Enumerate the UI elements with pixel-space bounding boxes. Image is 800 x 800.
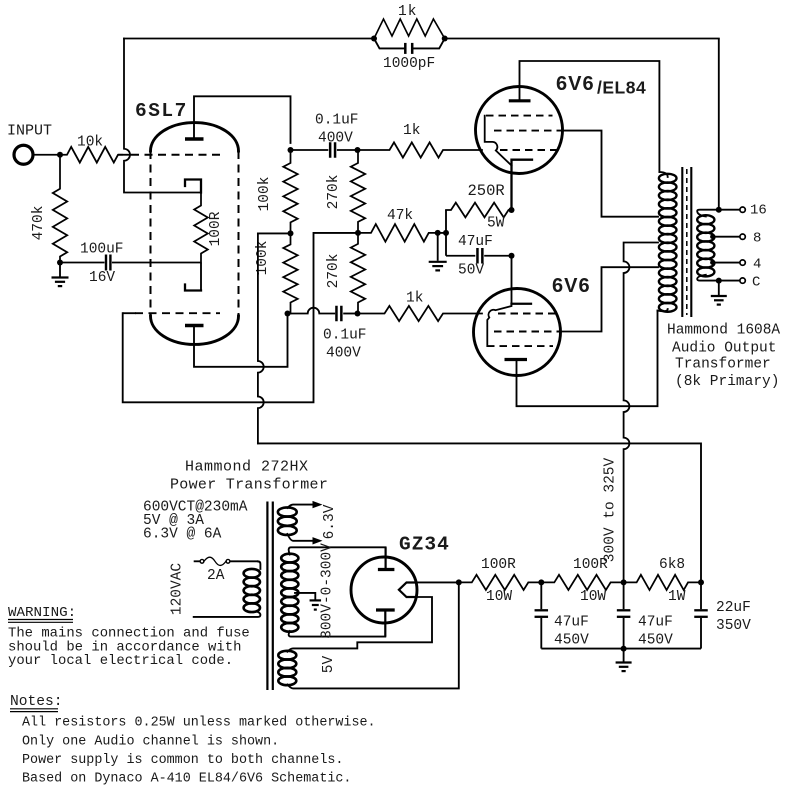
node 470k bottom [57, 260, 63, 266]
plate 6V6-1 anode bar [509, 99, 531, 102]
node filter2 [621, 579, 627, 585]
cathode 6V6-2 [512, 303, 532, 305]
wire 6V6-1 screen out [563, 131, 659, 217]
wire 100uF right to cathode resistor [112, 262, 201, 264]
node 4 tap [710, 260, 715, 265]
wire OPT primary bottom bend [658, 309, 668, 311]
ground HV center tap [310, 599, 322, 601]
svg-text:C: C [752, 275, 760, 291]
node 8 tap [710, 234, 715, 239]
resistor R9 1k lower [358, 306, 483, 321]
transformer T2 HV winding [281, 554, 298, 563]
svg-text:6k8: 6k8 [659, 557, 685, 573]
svg-text:1k: 1k [403, 123, 420, 139]
wire feedback drop with bulge over grid row [124, 39, 201, 193]
svg-text:47uF: 47uF [554, 615, 589, 631]
grid 6SL7-b dashed [135, 312, 220, 314]
svg-text:470k: 470k [31, 206, 47, 241]
svg-text:300V-0-300V: 300V-0-300V [320, 543, 336, 639]
svg-text:50V: 50V [458, 263, 484, 279]
capacitor C4 47uF 50V [476, 248, 479, 264]
resistor R13 100R second [541, 575, 623, 590]
tube 6SL7 envelope top dome [151, 123, 239, 151]
resistor R1 10k [60, 147, 122, 163]
node junction A (B+ feed) [288, 230, 294, 236]
svg-text:6V6: 6V6 [556, 73, 595, 95]
wire top feedback rail [124, 38, 719, 40]
wire 6SL7 plate2 to junction B [194, 314, 288, 367]
svg-text:1k: 1k [406, 291, 423, 307]
wire cap2 row with bulge over grid2 feed [288, 308, 335, 314]
svg-text:0.1uF: 0.1uF [323, 328, 367, 344]
ground 47k junction [437, 233, 439, 261]
wire 47uF row left [446, 255, 475, 257]
cathode 6SL7-a [185, 180, 201, 193]
plate 6SL7-b anode bar [185, 324, 204, 327]
svg-text:16V: 16V [89, 270, 115, 286]
fuse F1 2A [200, 559, 204, 563]
node filter3 [698, 579, 704, 585]
plate 6SL7-a anode bar [185, 137, 204, 140]
svg-text:5W: 5W [487, 216, 505, 232]
wire OPT primary top bend [659, 172, 667, 177]
node ground bus [621, 646, 627, 652]
node filter1 [538, 579, 544, 585]
wire 6V6-2 cathode lead [511, 256, 513, 304]
grid 6V6-1 g2 screen dashed [494, 130, 563, 132]
svg-text:6V6: 6V6 [552, 275, 591, 297]
svg-text:Only one Audio channel is show: Only one Audio channel is shown. [22, 735, 279, 750]
ground filter [623, 649, 625, 662]
tube 6V6-1 envelope [476, 87, 563, 174]
wire GZ34 plate1 lead [385, 547, 387, 569]
svg-text:Hammond 272HX: Hammond 272HX [185, 459, 309, 476]
svg-text:270k: 270k [326, 175, 342, 210]
svg-text:WARNING:: WARNING: [8, 605, 76, 621]
plate GZ34-2 bar [376, 608, 395, 611]
node feedback-right [442, 36, 448, 42]
wire cathode2 lead [200, 263, 202, 291]
svg-text:450V: 450V [638, 633, 673, 649]
svg-text:6SL7: 6SL7 [135, 100, 188, 122]
svg-text:Hammond 1608A: Hammond 1608A [667, 323, 780, 339]
svg-text:4: 4 [753, 257, 761, 273]
svg-text:/EL84: /EL84 [597, 78, 646, 98]
capacitor C2 0.1uF upper with wire [291, 149, 329, 151]
wire cap2 out [343, 313, 357, 315]
resistor R-fb 1k [374, 19, 445, 39]
cathode 6SL7-b [185, 285, 201, 291]
wire grid2 stub [123, 312, 136, 314]
svg-text:Power supply is common to both: Power supply is common to both channels. [22, 753, 343, 768]
capacitor C1 100uF [105, 255, 107, 271]
wire 250R/47uF vertical [445, 210, 447, 256]
node input junction [57, 152, 63, 158]
grid 6V6-2 g1 dashed [498, 313, 560, 315]
wire 6.3V bottom lead [287, 534, 314, 541]
wire HV top lead to GZ34 plate1 [289, 547, 386, 554]
transformer T2 core [266, 502, 268, 691]
svg-text:250R: 250R [468, 182, 505, 200]
node PSU output [456, 579, 462, 585]
resistor R4 100k upper [283, 150, 297, 233]
cathode 6V6-1 [512, 160, 533, 210]
svg-text:1W: 1W [668, 589, 686, 605]
resistor R6 270k upper [351, 150, 365, 233]
wire GZ34 plate2 lead [384, 610, 386, 637]
node 250R right on cathode line [509, 207, 515, 213]
svg-text:100R: 100R [481, 557, 516, 573]
svg-text:350V: 350V [716, 618, 751, 634]
resistor R11 250R [446, 203, 512, 218]
resistor R12 100R first [459, 575, 542, 590]
node cap1 out [355, 147, 361, 153]
input jack J1 [14, 145, 33, 164]
wire filter ground bus [541, 648, 701, 650]
svg-text:GZ34: GZ34 [399, 534, 450, 556]
wire 47k to vertical [438, 232, 446, 234]
resistor R3 100R cathode [194, 193, 208, 263]
wire 6SL7 plate1 to top junction [194, 96, 291, 143]
svg-text:2A: 2A [207, 568, 225, 584]
wire 8 ohm tap [713, 236, 740, 238]
wire HV center tap [295, 593, 315, 599]
transformer T1 primary coil [659, 174, 677, 183]
wire 5V bottom lead to output node [287, 582, 459, 688]
svg-text:100uF: 100uF [80, 242, 124, 258]
svg-text:1000pF: 1000pF [383, 56, 435, 72]
tube 6SL7 envelope bottom dome [151, 316, 239, 344]
wire 5V top lead to GZ34 filament [287, 597, 432, 652]
wire mains to primary [258, 561, 260, 569]
wire 16 ohm tap [697, 210, 740, 217]
tube 6SL7 envelope dashed sides [150, 151, 152, 316]
svg-text:100R: 100R [573, 557, 608, 573]
svg-text:Notes:: Notes: [10, 694, 63, 710]
resistor R5 100k lower [283, 233, 297, 313]
svg-text:10W: 10W [580, 589, 606, 605]
grid 6V6-2 g3 beam dashed [487, 345, 553, 347]
wire feedback cap branch [374, 39, 445, 49]
node junction X (divider) [355, 230, 361, 236]
transformer T1 secondary coil [697, 215, 714, 224]
svg-text:Audio Output: Audio Output [672, 341, 776, 357]
capacitor C5 47uF 450V first [540, 582, 542, 609]
node feedback on 16 tap [716, 207, 722, 213]
svg-text:100k: 100k [257, 177, 273, 212]
wire junction A to B+ dropper [258, 232, 291, 234]
transformer T2 primary coil [244, 569, 260, 578]
svg-text:Power Transformer: Power Transformer [170, 477, 328, 494]
svg-text:100R: 100R [208, 211, 224, 246]
wire OPT center tap B+ with bulges [624, 243, 658, 583]
arrow 6.3V bottom [313, 537, 323, 544]
node cap2 out [355, 311, 361, 317]
svg-text:22uF: 22uF [716, 600, 751, 616]
svg-text:47uF: 47uF [638, 615, 673, 631]
resistor R10 47k [358, 224, 438, 242]
capacitor C3 0.1uF lower [335, 306, 338, 322]
wire 6.3V top lead [287, 505, 314, 508]
transformer T2 5V winding [278, 651, 296, 660]
terminal C [740, 278, 745, 283]
beam-plate bracket 6V6-1 with bulge [485, 116, 512, 166]
wire B+ rail to audio [258, 443, 701, 582]
svg-text:400V: 400V [318, 131, 353, 147]
wire 6V6-2 plate to OPT bottom [517, 311, 658, 407]
wire mains bottom [194, 612, 261, 617]
plate 6V6-2 anode bar [505, 358, 528, 361]
ground input [59, 263, 61, 277]
svg-text:300V to 325V: 300V to 325V [603, 457, 619, 562]
node 250R tee [443, 230, 449, 236]
ground OPT common [718, 281, 720, 295]
svg-text:(8k Primary): (8k Primary) [675, 374, 779, 390]
beam-plate bracket 6V6-2 with bulge [487, 304, 511, 346]
svg-text:5V: 5V [321, 656, 337, 674]
wire grid1 row from 10k (crossed by feedback line) [118, 154, 131, 156]
node C tap ground [716, 278, 722, 284]
svg-text:16: 16 [750, 203, 767, 219]
wire 6V6-1 plate to OPT top [520, 61, 660, 172]
node 47k right [435, 230, 441, 236]
transformer T2 6.3V winding [278, 507, 297, 516]
tube GZ34 envelope [351, 557, 417, 623]
wire input to node [33, 154, 61, 156]
terminal 16 [740, 207, 745, 212]
wire C common tap [697, 275, 740, 281]
resistor R8 1k upper [358, 142, 483, 157]
wire 47uF row right [484, 255, 511, 257]
svg-text:6.3V: 6.3V [322, 504, 338, 539]
transformer T1 core [681, 167, 683, 317]
resistor R14 6k8 [624, 575, 701, 590]
node junction B [285, 311, 291, 317]
grid 6V6-2 g2 screen dashed [494, 331, 561, 333]
svg-text:47uF: 47uF [458, 234, 493, 250]
capacitor C-fb 1000pF [404, 43, 407, 54]
wire 6V6-2 screen out [561, 267, 659, 331]
cathode GZ34 chevron [399, 583, 416, 598]
svg-text:Based on Dynaco A-410 EL84/6V6: Based on Dynaco A-410 EL84/6V6 Schematic… [22, 772, 351, 787]
svg-text:400V: 400V [326, 346, 361, 362]
terminal 8 [740, 234, 745, 239]
wire grid2 feed path [123, 233, 358, 402]
svg-text:6.3V @ 6A: 6.3V @ 6A [143, 527, 222, 543]
svg-text:10W: 10W [486, 589, 512, 605]
svg-text:8: 8 [753, 231, 761, 247]
arrow 6.3V top [313, 501, 323, 508]
wire mains top with fuse leads [194, 560, 201, 562]
node 47uF right on cathode line [509, 253, 515, 259]
tube 6V6-2 envelope [474, 289, 561, 376]
svg-text:270k: 270k [326, 254, 342, 289]
svg-text:All resistors 0.25W unless mar: All resistors 0.25W unless marked otherw… [22, 716, 376, 731]
grid 6SL7-a dashed [131, 154, 220, 156]
svg-text:47k: 47k [387, 208, 413, 224]
terminal 4 [740, 260, 745, 265]
wire B+ dropper drop with bulges [258, 233, 264, 443]
resistor R2 470k [53, 155, 67, 263]
capacitor C6 47uF 450V second [623, 582, 625, 609]
svg-text:INPUT: INPUT [7, 123, 52, 140]
node plate1 junction [288, 147, 294, 153]
wire feedback vertical to 16ohm tap [718, 39, 720, 210]
svg-text:1k: 1k [398, 4, 417, 20]
plate GZ34-1 bar [378, 568, 395, 571]
wire GZ34 cathode out [415, 581, 458, 583]
wire 100uF left [60, 262, 105, 264]
wire 4 ohm tap [713, 262, 740, 264]
svg-text:Transformer: Transformer [675, 357, 771, 373]
wire HV bottom lead to GZ34 plate2 [289, 631, 386, 637]
svg-text:120VAC: 120VAC [170, 563, 186, 616]
svg-text:10k: 10k [77, 135, 103, 151]
capacitor C7 22uF 350V [700, 582, 702, 609]
resistor R7 270k lower [351, 233, 365, 314]
svg-text:450V: 450V [554, 633, 589, 649]
grid 6V6-1 g3 beam dashed [486, 115, 553, 117]
node feedback-left [371, 36, 377, 42]
svg-text:your local electrical code.: your local electrical code. [8, 653, 233, 669]
grid 6V6-1 g1 dashed [500, 149, 561, 151]
svg-text:0.1uF: 0.1uF [315, 113, 359, 129]
